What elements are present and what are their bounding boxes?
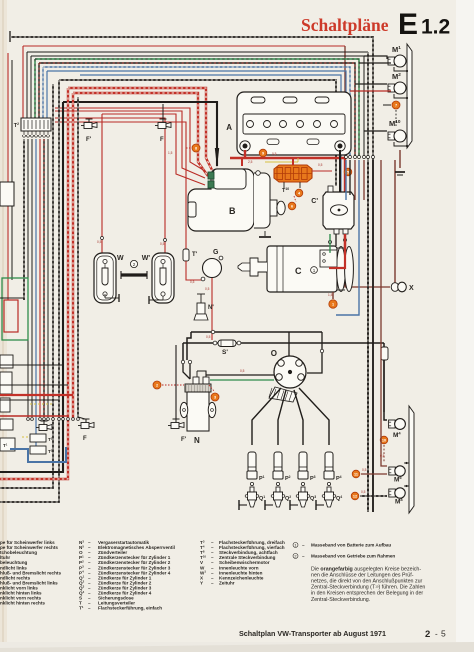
svg-text:Schaltpläne: Schaltpläne	[301, 15, 389, 35]
svg-text:W': W'	[142, 255, 151, 262]
svg-text:0,5: 0,5	[190, 280, 195, 284]
svg-text:12: 12	[353, 495, 357, 499]
svg-text:11: 11	[354, 473, 358, 477]
svg-text:Schaltplan VW-Transporter ab A: Schaltplan VW-Transporter ab August 1971	[239, 629, 386, 638]
svg-text:F: F	[83, 436, 87, 442]
svg-text:0,5: 0,5	[318, 163, 323, 167]
svg-text:Zentral-Steckverbindung.: Zentral-Steckverbindung.	[311, 597, 370, 603]
svg-text:C': C'	[311, 198, 318, 205]
svg-text:–: –	[302, 554, 305, 559]
svg-text:O: O	[271, 349, 277, 358]
svg-text:G: G	[213, 249, 219, 256]
svg-text:0,5: 0,5	[205, 287, 210, 291]
svg-text:0,5: 0,5	[380, 454, 385, 458]
svg-text:2: 2	[425, 629, 430, 640]
svg-text:0,5: 0,5	[361, 490, 366, 494]
svg-text:0,5: 0,5	[272, 152, 277, 156]
svg-text:2: 2	[294, 554, 296, 559]
svg-text:2: 2	[156, 384, 158, 388]
svg-text:0,5: 0,5	[206, 335, 211, 339]
svg-text:T': T'	[192, 252, 198, 258]
svg-text:A: A	[226, 123, 232, 132]
svg-text:0,5: 0,5	[362, 468, 367, 472]
svg-text:S': S'	[222, 349, 228, 356]
svg-text:Masseband von Batterie zum Auf: Masseband von Batterie zum Aufbau	[311, 543, 391, 548]
svg-text:N': N'	[208, 305, 214, 311]
svg-text:3: 3	[214, 396, 216, 400]
svg-text:2: 2	[133, 262, 136, 267]
svg-text:9: 9	[262, 152, 264, 156]
svg-text:10: 10	[382, 439, 386, 443]
svg-text:8: 8	[195, 147, 197, 151]
svg-text:-: -	[435, 630, 438, 639]
svg-text:0,5: 0,5	[240, 369, 245, 373]
svg-text:F': F'	[86, 137, 92, 143]
svg-text:0,5: 0,5	[97, 240, 102, 244]
svg-text:W: W	[117, 255, 124, 262]
svg-text:5: 5	[441, 629, 446, 639]
svg-text:F': F'	[181, 437, 187, 443]
svg-text:Y: Y	[200, 580, 203, 585]
svg-text:Zentral-Steckverbindung (T10): Zentral-Steckverbindung (T10) führen. Di…	[311, 584, 425, 590]
svg-text:B: B	[229, 206, 236, 216]
svg-text:5: 5	[347, 171, 349, 175]
svg-text:E: E	[398, 8, 418, 41]
svg-text:–: –	[302, 543, 305, 548]
svg-text:7: 7	[395, 104, 397, 108]
svg-text:0,5: 0,5	[160, 242, 165, 246]
svg-text:–: –	[88, 606, 91, 611]
svg-text:1: 1	[313, 268, 316, 273]
svg-text:X: X	[409, 285, 414, 292]
svg-text:–: –	[211, 580, 214, 585]
svg-text:nklicht hinten rechts: nklicht hinten rechts	[0, 601, 45, 606]
svg-text:1: 1	[294, 543, 296, 548]
svg-text:1,5: 1,5	[168, 151, 173, 155]
svg-text:Flachsteckerführung, einfach: Flachsteckerführung, einfach	[98, 606, 162, 611]
svg-text:1.2: 1.2	[421, 16, 450, 39]
svg-text:Masseband von Getriebe zum Rah: Masseband von Getriebe zum Rahmen	[311, 554, 395, 559]
svg-text:C: C	[295, 266, 302, 276]
svg-text:1: 1	[332, 303, 334, 307]
svg-text:F: F	[160, 137, 164, 143]
svg-text:6: 6	[291, 205, 293, 209]
svg-text:1,5: 1,5	[328, 293, 333, 297]
svg-text:Zeituhr: Zeituhr	[219, 580, 235, 585]
svg-text:2,5: 2,5	[248, 160, 253, 164]
svg-text:N: N	[194, 436, 200, 445]
